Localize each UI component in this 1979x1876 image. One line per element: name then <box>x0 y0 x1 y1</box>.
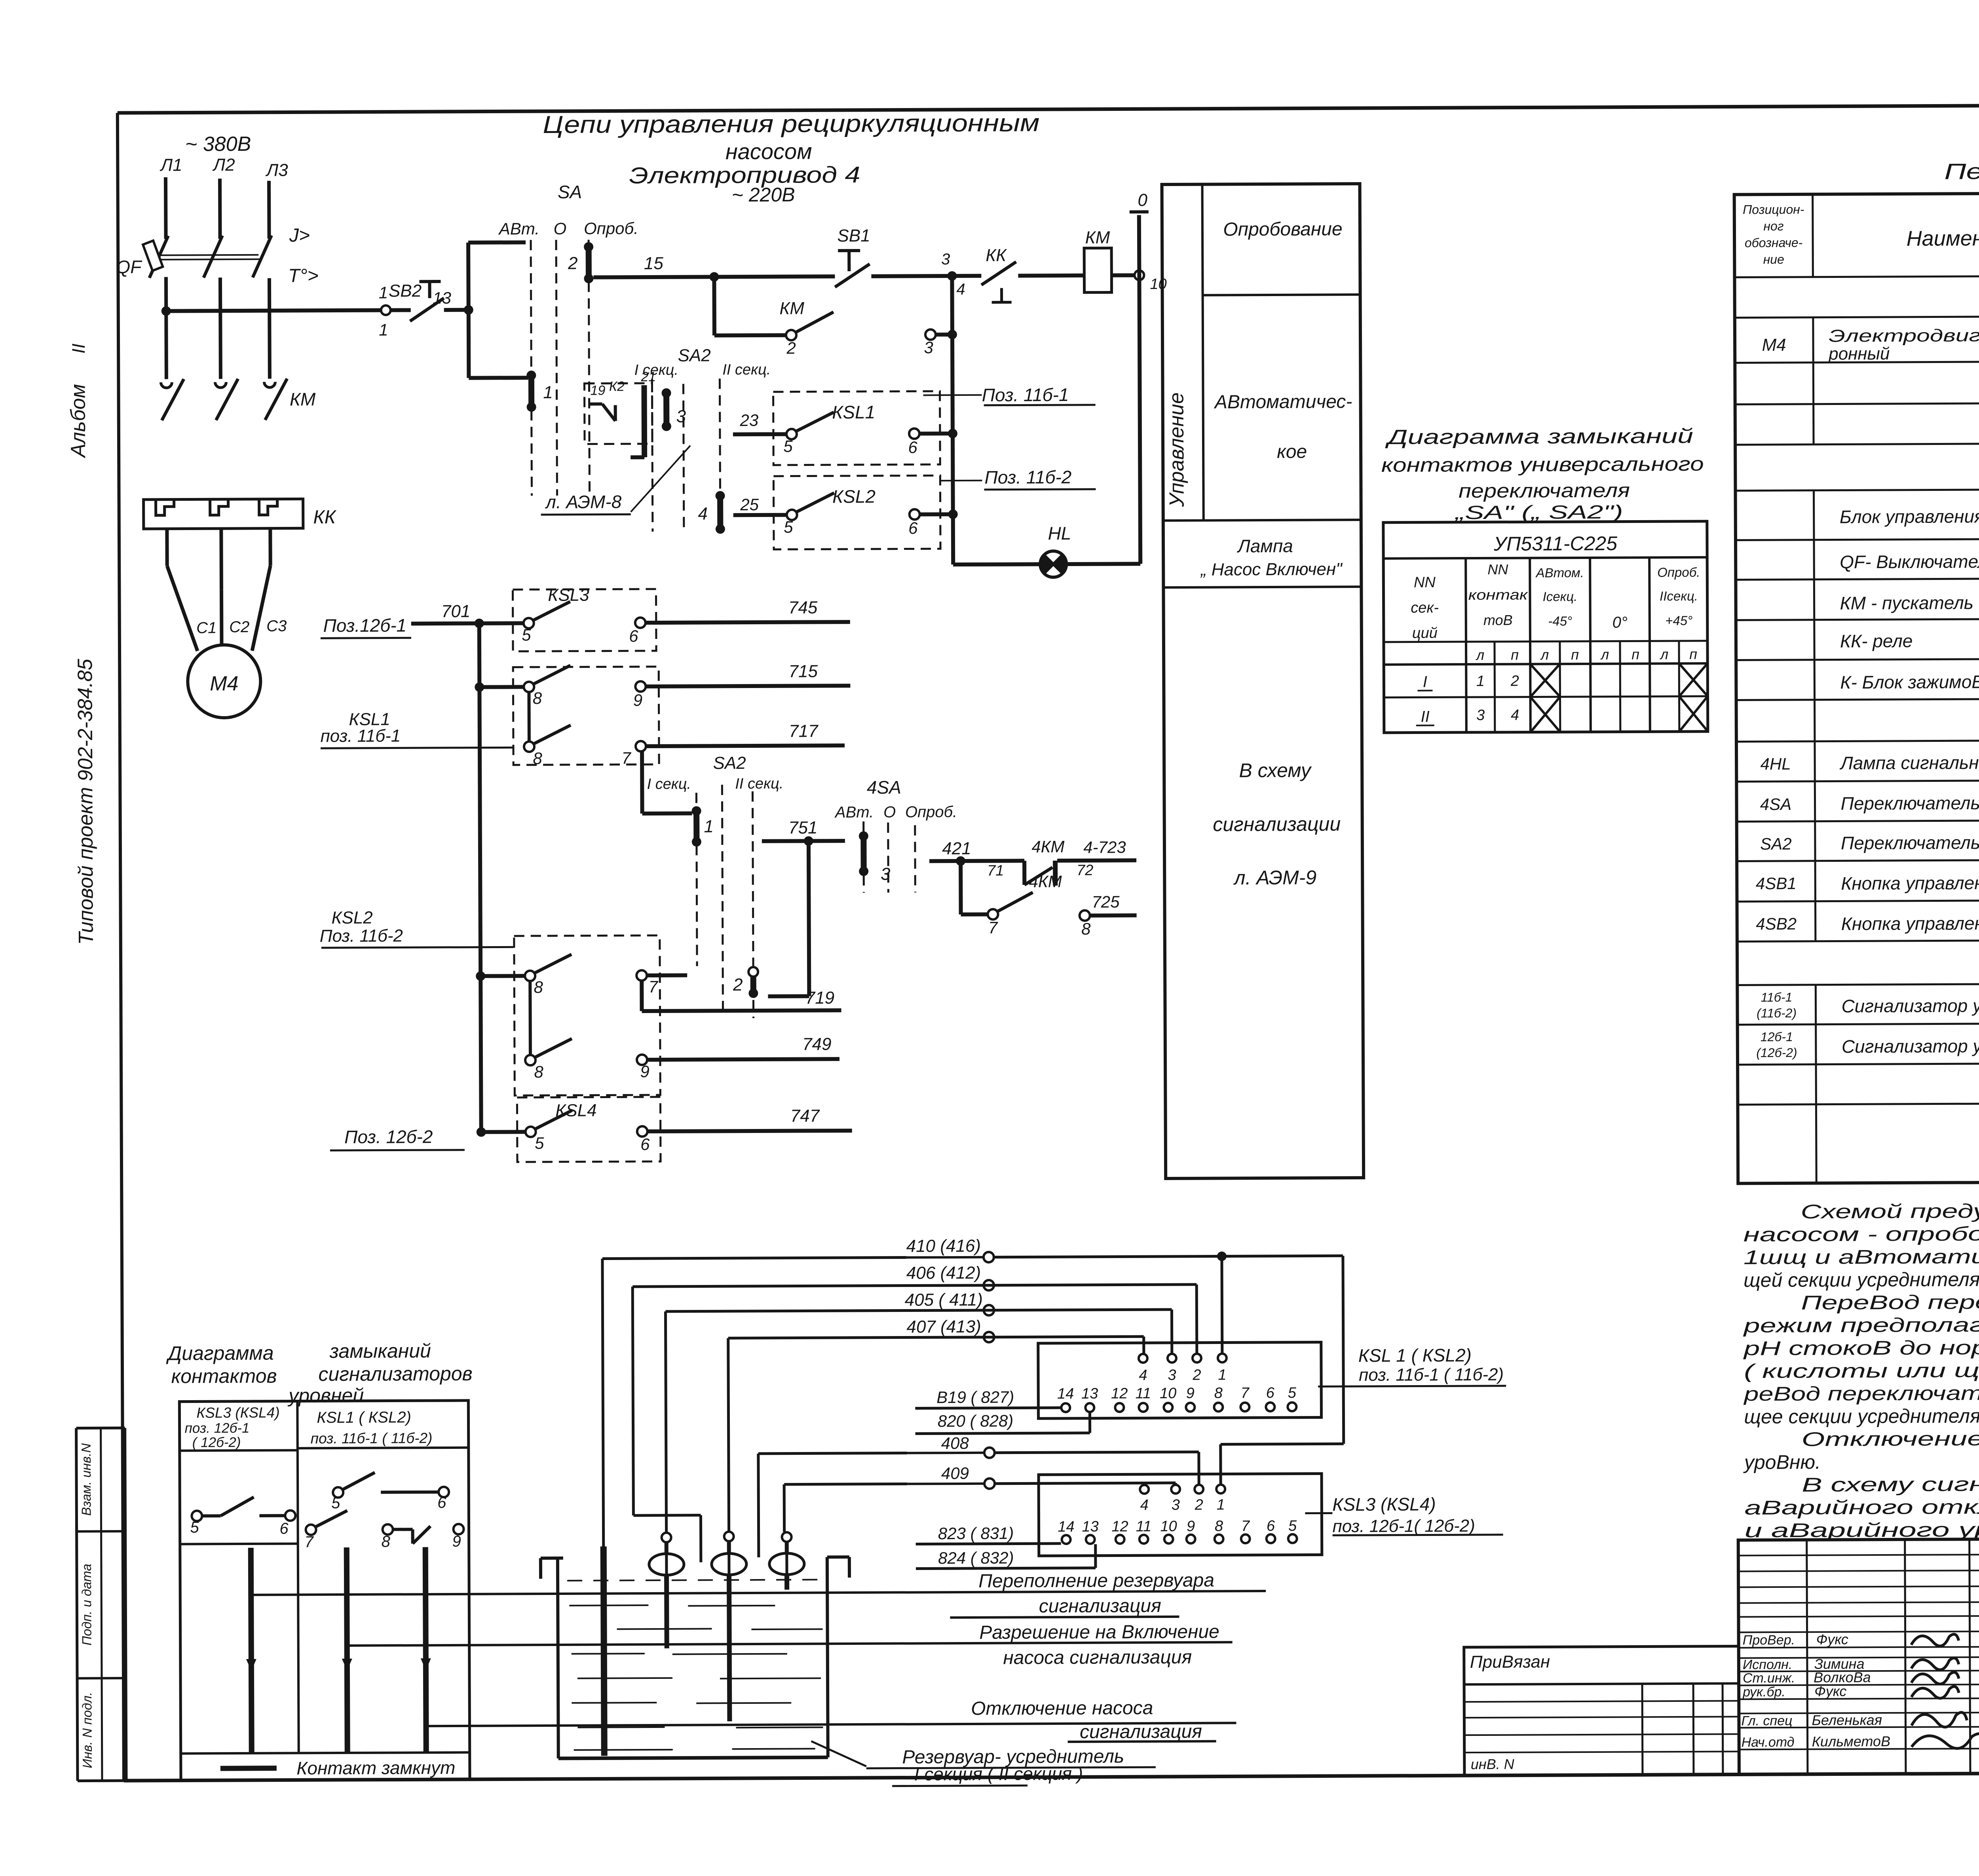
svg-text:3: 3 <box>1168 1367 1176 1384</box>
svg-text:насосом - опробование кнопк: насосом - опробование кнопкой упраВления… <box>1743 1221 1979 1246</box>
svg-text:I секция ( II секция ): I секция ( II секция ) <box>914 1763 1083 1785</box>
svg-text:SА2: SА2 <box>1760 834 1792 853</box>
svg-text:КSL2: КSL2 <box>331 908 372 928</box>
svg-text:8: 8 <box>533 749 542 768</box>
svg-text:~ 220В: ~ 220В <box>732 184 795 206</box>
svg-text:5: 5 <box>331 1494 340 1512</box>
svg-text:л: л <box>1660 646 1668 662</box>
svg-text:КSL1 ( КSL2): КSL1 ( КSL2) <box>317 1408 411 1426</box>
svg-text:745: 745 <box>788 598 818 617</box>
svg-text:АВт.: АВт. <box>834 804 874 821</box>
svg-text:II секц.: II секц. <box>722 361 771 378</box>
svg-text:8: 8 <box>533 689 542 707</box>
svg-text:КМ - пускатель: КМ - пускатель <box>1840 592 1974 613</box>
svg-text:КSL3 (КSL4): КSL3 (КSL4) <box>1332 1494 1436 1515</box>
svg-text:QF- Выключатель: QF- Выключатель <box>1840 551 1979 572</box>
svg-text:5: 5 <box>535 1134 544 1152</box>
svg-text:Диаграмма замыканий: Диаграмма замыканий <box>1385 425 1693 449</box>
svg-text:(12б-2): (12б-2) <box>1756 1045 1797 1060</box>
svg-text:Цепи управления рециркуляцио: Цепи управления рециркуляционным <box>543 109 1039 139</box>
svg-text:сигнализация: сигнализация <box>1039 1595 1161 1617</box>
svg-text:1: 1 <box>704 817 714 836</box>
svg-text:ций: ций <box>1412 625 1438 641</box>
svg-text:25: 25 <box>740 495 759 514</box>
svg-text:J>: J> <box>289 225 310 246</box>
svg-text:SВ2: SВ2 <box>389 281 422 300</box>
svg-text:SА2: SА2 <box>713 753 746 773</box>
svg-text:11б-1: 11б-1 <box>1761 990 1793 1004</box>
svg-text:Поз. 12б-2: Поз. 12б-2 <box>344 1126 433 1147</box>
svg-text:4SВ2: 4SВ2 <box>1756 914 1797 933</box>
svg-text:6: 6 <box>908 519 918 537</box>
svg-text:Поз. 11б-2: Поз. 11б-2 <box>320 926 403 946</box>
svg-text:14: 14 <box>1057 1386 1074 1402</box>
svg-text:8: 8 <box>534 1062 543 1081</box>
svg-text:Взам. инв.N: Взам. инв.N <box>79 1443 94 1516</box>
svg-text:6: 6 <box>279 1520 289 1538</box>
svg-text:К- Блок зажимоВ: К- Блок зажимоВ <box>1840 671 1979 692</box>
svg-text:1: 1 <box>379 283 388 302</box>
svg-text:2: 2 <box>733 975 743 994</box>
svg-text:4SА: 4SА <box>867 777 901 798</box>
svg-text:SВ1: SВ1 <box>837 226 870 245</box>
svg-text:контактов универсального: контактов универсального <box>1381 453 1704 476</box>
svg-text:л. АЭМ-8: л. АЭМ-8 <box>545 491 622 512</box>
svg-text:ние: ние <box>1763 252 1784 266</box>
svg-text:4КМ: 4КМ <box>1031 837 1064 856</box>
svg-text:4НL: 4НL <box>1761 755 1791 773</box>
svg-text:8: 8 <box>381 1533 390 1551</box>
svg-text:I секц.: I секц. <box>647 776 691 793</box>
svg-text:М4: М4 <box>210 672 238 695</box>
svg-text:КильметоВ: КильметоВ <box>1812 1733 1891 1750</box>
svg-text:ПроВер.: ПроВер. <box>1743 1633 1795 1648</box>
svg-text:уроВню.: уроВню. <box>1743 1451 1821 1473</box>
svg-text:Поз. 11б-2: Поз. 11б-2 <box>984 467 1071 488</box>
svg-text:4SА: 4SА <box>1760 795 1792 814</box>
svg-text:Опроб.: Опроб. <box>1657 565 1700 580</box>
svg-text:407 (413): 407 (413) <box>906 1317 981 1337</box>
svg-text:АВт.: АВт. <box>498 219 539 238</box>
svg-text:КSL 1 ( КSL2): КSL 1 ( КSL2) <box>1358 1345 1472 1366</box>
svg-text:Опроб.: Опроб. <box>584 219 638 238</box>
svg-text:аВарийного отключения на: аВарийного отключения насоса, Верхнего, … <box>1744 1494 1979 1519</box>
svg-text:Фукс: Фукс <box>1816 1631 1848 1647</box>
svg-text:14: 14 <box>1058 1519 1074 1535</box>
svg-text:751: 751 <box>788 818 818 837</box>
svg-text:ронный: ронный <box>1828 344 1890 364</box>
svg-text:7: 7 <box>621 749 631 767</box>
svg-text:4: 4 <box>698 504 708 523</box>
svg-text:4-723: 4-723 <box>1083 838 1126 856</box>
svg-text:4: 4 <box>1511 707 1519 724</box>
svg-text:Опробование: Опробование <box>1223 219 1343 240</box>
svg-text:Л3: Л3 <box>265 161 288 180</box>
svg-text:4КМ: 4КМ <box>1029 872 1062 891</box>
svg-text:3: 3 <box>1476 707 1485 724</box>
svg-text:8: 8 <box>1214 1385 1223 1401</box>
svg-text:1: 1 <box>379 321 388 339</box>
svg-text:SА: SА <box>558 182 582 202</box>
svg-text:824 ( 832): 824 ( 832) <box>938 1549 1014 1568</box>
svg-text:КSL1: КSL1 <box>832 402 875 422</box>
svg-text:Переключатель: Переключатель <box>1841 832 1979 853</box>
svg-text:5: 5 <box>190 1519 199 1536</box>
svg-text:поз. 12б-1( 12б-2): поз. 12б-1( 12б-2) <box>1332 1516 1475 1536</box>
svg-text:Отключение насоса: Отключение насоса <box>971 1697 1153 1719</box>
svg-text:9: 9 <box>633 691 643 709</box>
svg-text:( кислоты или щелочи ): ( кислоты или щелочи ) и барботажа Возду… <box>1744 1357 1979 1382</box>
svg-text:406 (412): 406 (412) <box>906 1263 981 1283</box>
svg-text:тоВ: тоВ <box>1483 612 1513 628</box>
svg-text:1: 1 <box>543 383 553 402</box>
svg-text:Альбом: Альбом <box>66 384 90 458</box>
svg-text:В19 ( 827): В19 ( 827) <box>936 1388 1014 1407</box>
svg-text:В схему сигнализации п: В схему сигнализации передаются сигналы <box>1802 1471 1979 1496</box>
svg-text:Наименование: Наименование <box>1907 226 1979 250</box>
svg-text:71: 71 <box>987 863 1004 879</box>
svg-text:Переключатель: Переключатель <box>1840 793 1979 814</box>
svg-text:Перечень элементов: Перечень элементов <box>1944 158 1979 184</box>
svg-text:( 12б-2): ( 12б-2) <box>192 1435 241 1450</box>
svg-text:3: 3 <box>676 407 686 426</box>
svg-text:поз. 11б-1 ( 11б-2): поз. 11б-1 ( 11б-2) <box>1359 1365 1504 1385</box>
svg-text:6: 6 <box>1267 1518 1275 1534</box>
svg-text:Лампа сигнальная: Лампа сигнальная <box>1839 752 1979 774</box>
svg-text:2: 2 <box>786 339 796 357</box>
svg-text:9: 9 <box>452 1533 461 1550</box>
svg-text:сигнализация: сигнализация <box>1080 1721 1202 1743</box>
svg-text:10: 10 <box>1160 1385 1176 1402</box>
svg-text:3: 3 <box>941 251 950 268</box>
svg-text:1шщ и аВтоматическое по: 1шщ и аВтоматическое по уроВню В соотВет… <box>1743 1243 1979 1268</box>
svg-text:7: 7 <box>1241 1518 1250 1534</box>
svg-text:инВ. N: инВ. N <box>1471 1756 1515 1772</box>
svg-text:5: 5 <box>522 625 531 644</box>
svg-text:13: 13 <box>1082 1519 1098 1535</box>
svg-text:Позицион-: Позицион- <box>1743 202 1804 217</box>
svg-text:„ Насос Включен": „ Насос Включен" <box>1200 559 1343 579</box>
svg-text:405 ( 411): 405 ( 411) <box>905 1290 983 1310</box>
svg-text:Лампа: Лампа <box>1236 536 1293 557</box>
svg-text:АВтом.: АВтом. <box>1535 565 1584 580</box>
svg-text:4SВ1: 4SВ1 <box>1756 874 1797 893</box>
svg-text:ПриВязан: ПриВязан <box>1470 1652 1550 1672</box>
svg-text:п: п <box>1571 646 1579 663</box>
svg-text:3: 3 <box>1172 1497 1180 1513</box>
svg-text:поз. 11б-1 ( 11б-2): поз. 11б-1 ( 11б-2) <box>311 1430 433 1446</box>
svg-text:13: 13 <box>1081 1386 1098 1402</box>
svg-text:2: 2 <box>568 254 578 273</box>
svg-text:410 (416): 410 (416) <box>906 1236 981 1256</box>
svg-text:КМ: КМ <box>290 389 316 409</box>
svg-text:10: 10 <box>1150 276 1166 293</box>
svg-text:Поз.12б-1: Поз.12б-1 <box>323 615 406 636</box>
svg-text:Подп. и дата: Подп. и дата <box>79 1564 94 1646</box>
svg-text:О: О <box>554 219 567 238</box>
svg-text:поз. 12б-1: поз. 12б-1 <box>185 1420 250 1436</box>
svg-text:„SА" („ SА2"): „SА" („ SА2") <box>1454 502 1623 524</box>
svg-text:АВтоматичес-: АВтоматичес- <box>1214 391 1352 412</box>
svg-text:насоса сигнализация: насоса сигнализация <box>1003 1647 1192 1669</box>
svg-text:SА2: SА2 <box>678 346 711 365</box>
svg-text:12: 12 <box>1111 1518 1128 1535</box>
svg-text:Схемой предусматривается дВ: Схемой предусматривается дВа Вида управл… <box>1800 1198 1979 1223</box>
svg-text:701: 701 <box>441 602 471 621</box>
svg-text:УП5311-С225: УП5311-С225 <box>1493 532 1617 555</box>
svg-text:Л2: Л2 <box>212 155 235 175</box>
svg-text:замыканий: замыканий <box>329 1340 431 1362</box>
svg-text:Переполнение резервуара: Переполнение резервуара <box>978 1570 1214 1592</box>
svg-text:М4: М4 <box>1762 335 1786 355</box>
svg-text:п: п <box>1511 647 1519 663</box>
svg-text:КК- реле: КК- реле <box>1840 631 1913 652</box>
svg-text:Электродвигатель асинх-: Электродвигатель асинх- <box>1829 325 1979 346</box>
svg-text:12: 12 <box>1111 1385 1128 1402</box>
svg-text:2: 2 <box>1192 1367 1201 1384</box>
svg-text:+45°: +45° <box>1665 613 1692 628</box>
svg-text:6: 6 <box>1266 1385 1275 1401</box>
svg-text:7: 7 <box>988 918 998 937</box>
svg-text:Ст.инж.: Ст.инж. <box>1743 1671 1795 1686</box>
svg-text:Разрешение на Включение: Разрешение на Включение <box>979 1621 1219 1643</box>
svg-text:15: 15 <box>644 254 664 273</box>
svg-text:II: II <box>68 343 89 354</box>
svg-text:ПереВод переключателя „ SА": ПереВод переключателя „ SА" В аВтоматиче… <box>1801 1289 1979 1314</box>
svg-text:6: 6 <box>908 438 917 456</box>
svg-text:NN: NN <box>1414 574 1436 591</box>
svg-text:11: 11 <box>1135 1385 1151 1402</box>
svg-text:72: 72 <box>1077 862 1093 879</box>
svg-text:щее секции усреднителя.: щее секции усреднителя. <box>1744 1405 1979 1428</box>
svg-text:-45°: -45° <box>1548 614 1572 628</box>
svg-text:КМ: КМ <box>1085 228 1110 247</box>
svg-text:щей секции усреднителя.: щей секции усреднителя. <box>1743 1268 1979 1291</box>
svg-text:Контакт замкнут: Контакт замкнут <box>296 1757 455 1779</box>
svg-text:23: 23 <box>739 411 758 430</box>
svg-text:Опроб.: Опроб. <box>905 803 957 821</box>
svg-text:С2: С2 <box>229 618 249 636</box>
svg-text:Управление: Управление <box>1165 392 1189 507</box>
svg-text:(11б-2): (11б-2) <box>1757 1006 1797 1020</box>
svg-text:3: 3 <box>881 865 891 884</box>
svg-text:Кнопка управления: Кнопка управления <box>1841 913 1979 934</box>
svg-text:6: 6 <box>640 1135 650 1154</box>
svg-text:717: 717 <box>789 721 819 741</box>
svg-text:Кнопка управления: Кнопка управления <box>1841 872 1979 894</box>
svg-text:КSL3 (КSL4): КSL3 (КSL4) <box>196 1405 279 1421</box>
svg-text:кое: кое <box>1277 441 1307 462</box>
svg-text:поз. 11б-1: поз. 11б-1 <box>320 726 401 746</box>
svg-text:IIсекц.: IIсекц. <box>1660 589 1698 603</box>
svg-text:Исполн.: Исполн. <box>1743 1657 1793 1672</box>
svg-text:747: 747 <box>790 1106 820 1125</box>
svg-text:В схему: В схему <box>1239 759 1312 782</box>
svg-text:7: 7 <box>649 977 659 996</box>
svg-text:Типовой проект 902-2-384.85: Типовой проект 902-2-384.85 <box>74 658 98 945</box>
svg-text:п: п <box>1631 646 1639 662</box>
svg-text:6: 6 <box>437 1494 446 1511</box>
svg-text:Нач.отд: Нач.отд <box>1742 1735 1795 1750</box>
svg-text:п: п <box>1689 646 1697 662</box>
svg-text:13: 13 <box>433 289 451 307</box>
svg-text:7: 7 <box>304 1533 314 1551</box>
svg-text:л. АЭМ-9: л. АЭМ-9 <box>1233 867 1316 889</box>
svg-text:Л1: Л1 <box>160 156 182 175</box>
svg-text:715: 715 <box>788 661 818 681</box>
svg-text:11: 11 <box>1136 1518 1152 1535</box>
svg-text:II: II <box>1421 708 1429 725</box>
svg-text:Iсекц.: Iсекц. <box>1543 589 1578 604</box>
svg-text:Т°>: Т°> <box>288 265 319 286</box>
svg-text:переключателя: переключателя <box>1459 479 1630 502</box>
svg-text:л: л <box>1540 646 1549 663</box>
svg-text:0°: 0° <box>1612 614 1628 631</box>
svg-text:7: 7 <box>1241 1385 1250 1401</box>
svg-text:21: 21 <box>640 369 656 384</box>
svg-text:Сигнализатор уровня: Сигнализатор уровня <box>1841 995 1979 1017</box>
svg-text:Диаграмма: Диаграмма <box>166 1342 274 1365</box>
svg-text:5: 5 <box>783 437 793 456</box>
svg-text:823 ( 831): 823 ( 831) <box>938 1524 1014 1543</box>
svg-text:8: 8 <box>534 978 543 996</box>
svg-text:режим предполагается после: режим предполагается после заполнения, д… <box>1743 1312 1979 1337</box>
svg-text:рук.бр.: рук.бр. <box>1742 1684 1785 1699</box>
svg-text:725: 725 <box>1092 892 1120 911</box>
svg-text:рН стокоВ до нормы путем: рН стокоВ до нормы путем подачи насосом … <box>1743 1334 1979 1359</box>
svg-text:NN: NN <box>1487 561 1508 578</box>
svg-text:КSL2: КSL2 <box>832 486 876 507</box>
svg-text:контактов: контактов <box>171 1365 277 1388</box>
svg-text:контак: контак <box>1468 586 1529 603</box>
svg-text:~ 380В: ~ 380В <box>185 133 251 156</box>
svg-text:12б-1: 12б-1 <box>1761 1030 1793 1044</box>
svg-text:749: 749 <box>802 1034 832 1054</box>
svg-text:3: 3 <box>924 338 933 357</box>
svg-text:сигнализаторов: сигнализаторов <box>318 1363 473 1385</box>
svg-text:19: 19 <box>591 383 606 398</box>
svg-text:обозначе-: обозначе- <box>1745 236 1803 250</box>
svg-text:8: 8 <box>1215 1518 1223 1534</box>
svg-text:5: 5 <box>1288 1385 1297 1401</box>
svg-text:КМ: КМ <box>779 299 804 318</box>
svg-text:Блок управления: Блок управления <box>1840 506 1979 527</box>
svg-text:С3: С3 <box>266 618 287 635</box>
svg-text:II секц.: II секц. <box>735 775 783 792</box>
svg-text:421: 421 <box>942 839 971 858</box>
svg-text:уровней: уровней <box>287 1384 364 1407</box>
svg-text:QF: QF <box>116 257 142 277</box>
svg-text:10: 10 <box>1160 1518 1177 1535</box>
svg-text:6: 6 <box>629 627 638 645</box>
svg-text:К2: К2 <box>609 379 625 394</box>
svg-text:1: 1 <box>1218 1367 1226 1383</box>
svg-text:9: 9 <box>1186 1385 1195 1402</box>
svg-text:ног: ног <box>1763 219 1784 233</box>
svg-text:сек-: сек- <box>1411 599 1439 616</box>
svg-text:1: 1 <box>1476 673 1485 690</box>
svg-text:408: 408 <box>941 1434 969 1452</box>
svg-text:4: 4 <box>1140 1497 1149 1513</box>
svg-text:5: 5 <box>784 518 793 536</box>
svg-text:5: 5 <box>1288 1518 1297 1534</box>
svg-text:1: 1 <box>1217 1496 1225 1513</box>
svg-text:О: О <box>883 804 896 821</box>
svg-text:4: 4 <box>956 281 965 298</box>
svg-text:насосом: насосом <box>726 139 812 164</box>
svg-text:8: 8 <box>1081 920 1091 938</box>
svg-text:4: 4 <box>1139 1367 1147 1384</box>
svg-text:С1: С1 <box>196 619 217 637</box>
svg-text:НL: НL <box>1048 523 1071 544</box>
svg-text:2: 2 <box>1195 1497 1203 1513</box>
svg-text:9: 9 <box>1187 1518 1195 1535</box>
svg-text:реВод переключателя„ SА2" В: реВод переключателя„ SА2" В положение со… <box>1743 1380 1979 1405</box>
svg-text:820 ( 828): 820 ( 828) <box>938 1412 1014 1431</box>
svg-text:л: л <box>1600 646 1609 663</box>
svg-text:409: 409 <box>941 1464 969 1483</box>
svg-text:Отключение насоса М4 пр: Отключение насоса М4 происходит по нижне… <box>1802 1426 1979 1450</box>
svg-text:Инв. N подл.: Инв. N подл. <box>80 1692 95 1768</box>
svg-text:Фукс: Фукс <box>1814 1683 1846 1699</box>
svg-text:сигнализации: сигнализации <box>1213 813 1341 835</box>
svg-text:0: 0 <box>1138 190 1147 210</box>
svg-text:2: 2 <box>1510 673 1519 690</box>
svg-text:Сигнализатор уровня: Сигнализатор уровня <box>1842 1036 1979 1057</box>
svg-text:I: I <box>1423 673 1427 690</box>
svg-text:Беленькая: Беленькая <box>1812 1712 1882 1728</box>
svg-text:л: л <box>1476 647 1484 663</box>
svg-text:9: 9 <box>640 1062 650 1081</box>
svg-text:719: 719 <box>805 988 835 1007</box>
svg-text:КК: КК <box>986 246 1007 265</box>
svg-text:Поз. 11б-1: Поз. 11б-1 <box>982 384 1069 405</box>
svg-text:Гл. спец: Гл. спец <box>1741 1713 1792 1728</box>
svg-text:КК: КК <box>313 507 336 528</box>
